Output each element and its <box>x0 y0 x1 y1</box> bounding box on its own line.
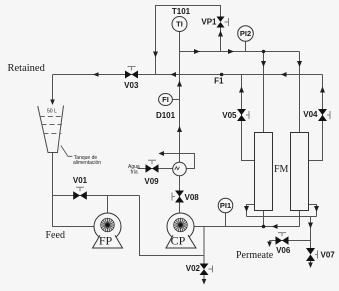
instrument FI (flow indicator) ellipse <box>159 94 173 106</box>
wire V06 branch line <box>270 240 311 242</box>
svg-text:50 L: 50 L <box>47 108 57 114</box>
wire FM2 permeate side port <box>309 205 317 217</box>
wire FM1 bottom drop <box>263 211 265 227</box>
wire FM2 bottom drop <box>299 211 301 227</box>
wire tank inlet drop <box>52 75 54 100</box>
wire V02 outlet stub <box>203 275 205 279</box>
junction dot on line B under FM1 <box>262 225 266 229</box>
arrow right on line 1 (first) <box>194 49 200 54</box>
wire V05 retentate riser + upper side port of FM1 <box>242 75 256 161</box>
wire cooling water inlet (Agua fria to HX) <box>138 168 174 170</box>
svg-text:V08: V08 <box>185 193 200 202</box>
arrow down on FM1 feed drop <box>261 61 266 67</box>
svg-text:T101: T101 <box>172 7 191 16</box>
svg-text:FI: FI <box>162 95 169 104</box>
wire permeate header line A <box>247 216 317 218</box>
wire F1 retentate return line <box>53 74 323 76</box>
svg-text:Feed: Feed <box>46 230 65 241</box>
arrow left on F1 line right section <box>281 72 287 77</box>
wire heat-exchanger cooling outlet loop <box>164 154 195 169</box>
arrow down on FM2 permeate elbow <box>314 206 319 212</box>
arrow up on V04 riser <box>320 87 325 93</box>
svg-text:VP1: VP1 <box>201 18 217 27</box>
valve V09 (horizontal, cooling water inlet) <box>146 160 159 172</box>
svg-text:PI2: PI2 <box>240 29 251 38</box>
arrow down into tank <box>50 100 55 106</box>
arrow up on main riser below F1 crossing <box>177 81 182 87</box>
svg-text:V09: V09 <box>144 177 159 186</box>
wire V07 drop from permeate header <box>310 217 312 249</box>
wire V01 line (tank tee to FP discharge leg) <box>53 195 140 197</box>
svg-text:D101: D101 <box>156 111 176 120</box>
arrow up on V05 riser <box>239 87 244 93</box>
svg-text:V07: V07 <box>321 251 336 260</box>
valve V03 (horizontal, on F1 line) <box>125 67 138 79</box>
valve V06 (horizontal, permeate) <box>276 233 289 245</box>
valve V01 (horizontal, on tank discharge line) <box>73 187 87 199</box>
wire V04 retentate riser + upper side port of FM2 <box>309 75 323 161</box>
wire PI1 stem <box>225 213 227 227</box>
junction dot on line 1 at FM1 feed tee <box>262 50 265 53</box>
tank label pointer line <box>61 146 73 157</box>
wire FM1 permeate side port <box>247 205 256 217</box>
membrane module FM2 column <box>291 133 309 211</box>
pump CP (circulation pump) <box>166 213 196 248</box>
wire feed drop to module FM2 <box>299 52 301 133</box>
arrow up below VP1 <box>218 31 223 37</box>
membrane module FM1 column <box>255 133 273 211</box>
instrument PI2 circle <box>238 26 254 42</box>
valve V04 (vertical, FM2 retentate) <box>318 109 330 121</box>
arrow down below V07 <box>308 263 313 269</box>
arrow right on line 1 (second) <box>228 49 234 54</box>
wire VP1 lower stub down to line 1 <box>220 28 222 52</box>
svg-text:Permeate: Permeate <box>236 250 274 261</box>
svg-text:V02: V02 <box>186 264 201 273</box>
arrow down on left bypass vertical <box>153 52 158 58</box>
valve VP1 (vertical, on bypass drop) <box>217 17 229 28</box>
arrow left on F1 line near tank <box>93 72 99 77</box>
arrow down on FM2 feed drop <box>297 61 302 67</box>
svg-text:fría: fría <box>130 169 137 175</box>
arrow down at permeate outlet <box>267 242 272 248</box>
wire V07 outlet stub <box>310 261 312 263</box>
arrow down on FM1 permeate elbow <box>244 206 249 212</box>
feed tank (open-top, conical bottom) <box>38 106 64 153</box>
svg-text:V01: V01 <box>73 176 88 185</box>
wire FP top connection <box>107 196 109 214</box>
svg-text:V05: V05 <box>222 111 237 120</box>
wire feed drop to module FM1 <box>263 52 265 133</box>
svg-text:PI1: PI1 <box>220 201 231 210</box>
wire main riser (CP discharge to top) <box>179 32 181 214</box>
wire permeate outlet elbow (left of V06) <box>269 241 271 243</box>
valve V08 (vertical, on CP discharge) <box>172 191 184 203</box>
wire V02 drain drop <box>203 227 205 264</box>
arrow down on V07 drop <box>308 223 313 229</box>
wire FI stub <box>172 99 179 101</box>
wire tank outlet + feed run to FP suction <box>53 153 95 227</box>
arrow left on line B <box>272 224 278 229</box>
valve V02 (vertical, loop drain) <box>200 264 213 276</box>
svg-text:CP: CP <box>171 233 186 247</box>
svg-text:V06: V06 <box>276 246 291 255</box>
arrow down below V02 <box>202 279 207 285</box>
wire line B (module bottoms to CP suction) <box>194 226 300 228</box>
valve V07 (vertical, permeate drain) <box>306 248 318 261</box>
wire line 1 (pump discharge header) <box>180 51 300 53</box>
heat exchanger circle on main riser <box>173 162 187 176</box>
svg-text:FP: FP <box>99 233 113 247</box>
svg-text:V03: V03 <box>124 81 139 90</box>
wire PI2 stem <box>245 42 247 52</box>
arrow left on F1 line left of main riser <box>171 72 177 77</box>
pump FP (feed pump) <box>93 213 123 248</box>
svg-text:alimentación: alimentación <box>73 160 101 166</box>
wire top bypass: left loop vertical + top horizontal + VP1 upper drop <box>156 6 221 75</box>
svg-text:V04: V04 <box>303 110 318 119</box>
junction dot on F1 under VP1 <box>220 73 224 77</box>
arrow left at HX cooling outlet <box>159 151 165 156</box>
svg-text:TI: TI <box>176 20 183 29</box>
svg-text:F1: F1 <box>214 76 224 85</box>
svg-text:FM: FM <box>274 164 289 175</box>
wire FP discharge: down leg and bottom run to drain tee <box>140 196 205 256</box>
instrument TI (temperature indicator) circle <box>172 17 187 32</box>
instrument PI1 circle <box>218 198 233 213</box>
arrow up on main riser mid <box>177 126 182 132</box>
svg-text:Retained: Retained <box>8 63 46 74</box>
valve V05 (vertical, FM1 retentate) <box>237 109 249 121</box>
